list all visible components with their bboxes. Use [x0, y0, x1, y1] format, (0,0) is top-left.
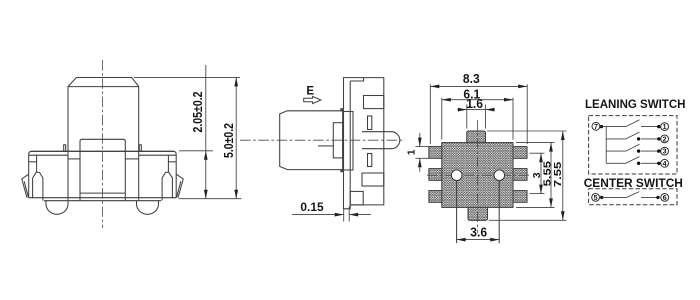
hole leads down — [456, 181, 458, 244]
side cap — [280, 111, 343, 170]
front view stem bottom edge — [80, 192, 125, 194]
clip inner vertical — [36, 155, 38, 172]
svg-text:1: 1 — [663, 124, 667, 131]
pin L2 — [429, 169, 442, 181]
svg-text:2.05±0.2: 2.05±0.2 — [191, 91, 205, 132]
pin L3 — [429, 191, 442, 203]
row 4 — [606, 162, 626, 164]
front view left clip group — [22, 145, 66, 201]
dim 1.6 line — [458, 109, 495, 111]
row 3 — [606, 150, 626, 152]
side latch mark bottom — [340, 169, 343, 172]
clip vertical a — [32, 178, 34, 199]
front view housing bottom line — [29, 197, 177, 199]
side latch mark top — [340, 108, 343, 111]
svg-text:E: E — [306, 86, 314, 98]
pin L1 — [429, 147, 442, 159]
svg-text:3: 3 — [663, 149, 667, 156]
top body hatched — [442, 143, 513, 208]
front view foot left — [46, 201, 68, 215]
dim 5.0±0.2 line — [235, 77, 237, 198]
svg-text:3.6: 3.6 — [470, 225, 487, 240]
hole left — [451, 170, 462, 181]
svg-text:6: 6 — [663, 195, 667, 202]
side pin band — [362, 132, 384, 149]
E block arrow — [304, 96, 321, 103]
dim 1.6 ext lines — [466, 105, 468, 129]
svg-text:LEANING SWITCH: LEANING SWITCH — [585, 97, 686, 111]
side slot bottom — [362, 173, 384, 186]
dim 6.1 line — [442, 99, 513, 101]
front view right clip (mirror) — [139, 145, 183, 201]
side view centerline — [240, 139, 405, 141]
svg-text:5.0±0.2: 5.0±0.2 — [222, 123, 236, 158]
side bracket bottom notch — [350, 191, 363, 205]
front view housing inner top line right — [139, 154, 177, 156]
front view foot right — [137, 201, 159, 215]
svg-text:8.3: 8.3 — [463, 71, 480, 86]
hole right — [494, 170, 505, 181]
front view bottom plate line — [44, 200, 161, 202]
dim 3 line — [540, 153, 542, 193]
dim 0.15 line + arrows — [292, 214, 344, 216]
leaning switch dashed box — [589, 116, 677, 174]
dim 3.6 line — [457, 239, 500, 241]
svg-text:2: 2 — [663, 136, 667, 143]
clip vertical b — [42, 178, 44, 201]
pin R1 — [513, 147, 527, 159]
svg-text:3: 3 — [531, 172, 543, 178]
side stem mark — [318, 145, 333, 147]
side cap flange — [344, 112, 354, 171]
side small slot upper — [368, 116, 372, 130]
clip diagonal b — [39, 172, 43, 178]
svg-text:5.55: 5.55 — [542, 160, 553, 186]
front view centerline — [102, 60, 104, 228]
top view centerline horizontal — [427, 174, 529, 176]
side small slot lower — [368, 154, 372, 167]
dim 2.05±0.2 line — [205, 65, 207, 199]
side bracket top notch — [350, 78, 363, 81]
svg-text:0.15: 0.15 — [300, 200, 324, 214]
svg-text:1: 1 — [405, 149, 417, 155]
dim 8.3 ext lines — [429, 84, 431, 144]
svg-text:5: 5 — [594, 195, 598, 202]
bus line — [605, 127, 607, 164]
dim 5.55 ext lines — [516, 142, 555, 144]
svg-text:1.6: 1.6 — [466, 96, 483, 111]
row 2 — [606, 138, 626, 140]
side slot top — [364, 96, 384, 109]
dim 3 ext lines — [530, 152, 545, 154]
front view shoulder left — [68, 158, 80, 160]
pin R2 — [513, 169, 527, 181]
clip hook — [22, 174, 29, 197]
dim 8.3 line — [430, 85, 527, 87]
side pin bump — [384, 132, 400, 149]
latch tick — [64, 145, 66, 152]
front dim extension line bottom — [179, 198, 242, 200]
dim 5.55 line — [550, 143, 552, 208]
bottom tab — [468, 207, 488, 220]
top view centerline vertical — [477, 120, 479, 233]
top tab — [467, 131, 486, 143]
front dim extension line top — [134, 76, 240, 78]
front dim extension line middle — [179, 150, 213, 152]
front view housing top line — [31, 150, 174, 152]
center switch dashed box — [589, 189, 677, 205]
pin 7 — [592, 122, 600, 130]
side plate outline — [344, 78, 384, 209]
row 1 — [602, 126, 626, 128]
svg-text:7.55: 7.55 — [553, 161, 564, 187]
front view housing inner top line left — [29, 154, 68, 156]
dim 0.15 ext lines — [343, 210, 345, 222]
svg-text:7: 7 — [594, 124, 598, 131]
clip notch top line — [29, 161, 37, 163]
front view shoulder right — [125, 158, 138, 160]
pin R3 — [513, 191, 527, 203]
dim 6.1 ext lines — [441, 98, 443, 140]
side bracket inner vertical — [349, 81, 351, 205]
row 5 — [602, 196, 627, 198]
clip step — [37, 171, 40, 173]
dim 7.55 line — [562, 131, 564, 220]
svg-text:4: 4 — [663, 161, 667, 168]
pin 5 — [592, 194, 600, 202]
dim 1 ext lines — [416, 146, 429, 148]
svg-text:CENTER SWITCH: CENTER SWITCH — [584, 176, 683, 190]
front view housing outline — [29, 151, 177, 197]
dim 1 lines + arrows — [419, 133, 421, 146]
side stem — [333, 123, 342, 158]
dim 7.55 ext lines — [487, 130, 567, 132]
pin 6 — [661, 194, 669, 202]
clip diagonal a — [33, 172, 37, 178]
front view button cap inner top edge — [68, 86, 139, 88]
front view plunger stem — [80, 139, 125, 200]
front view button cap outline — [68, 78, 139, 200]
